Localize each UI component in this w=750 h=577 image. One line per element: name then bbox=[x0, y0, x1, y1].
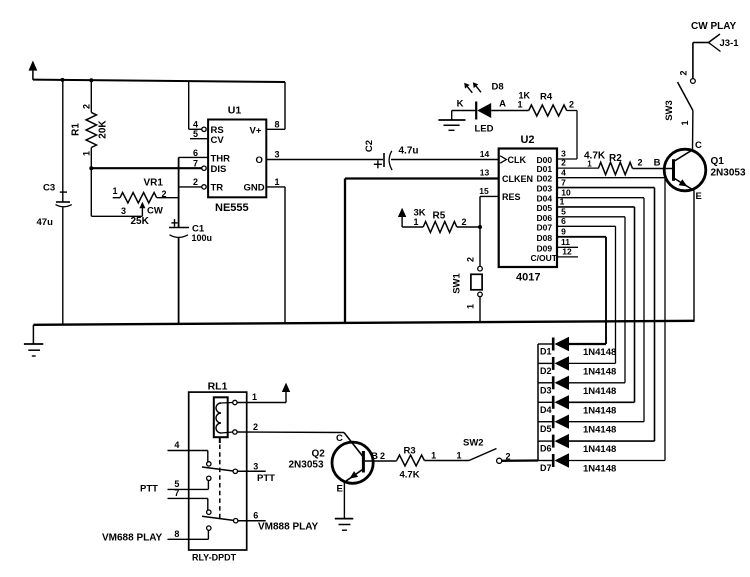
wire D05 pin1 to diode bbox=[557, 197, 635, 403]
svg-text:U1: U1 bbox=[228, 105, 242, 117]
diode D6 1N4148 bbox=[538, 434, 616, 455]
svg-text:V+: V+ bbox=[250, 126, 262, 137]
svg-text:NE555: NE555 bbox=[215, 202, 249, 214]
svg-text:2: 2 bbox=[569, 100, 574, 110]
svg-text:D8: D8 bbox=[492, 82, 504, 93]
svg-text:R3: R3 bbox=[404, 446, 416, 457]
wire SW2 to diode bus bbox=[502, 459, 538, 462]
svg-text:3: 3 bbox=[253, 461, 258, 471]
ground symbol bottom-left bbox=[24, 325, 43, 356]
wire RS pin4 to rail bbox=[189, 81, 202, 129]
wire C3 top bbox=[62, 80, 64, 202]
svg-text:1: 1 bbox=[466, 304, 476, 309]
relay pin8 bbox=[168, 529, 209, 539]
svg-text:6: 6 bbox=[253, 511, 258, 521]
svg-text:U2: U2 bbox=[520, 134, 534, 146]
pin 2 circle TR bbox=[202, 185, 206, 189]
wire D08 pin9 to diode bbox=[557, 227, 606, 345]
svg-text:1N4148: 1N4148 bbox=[583, 386, 616, 397]
svg-text:SW1: SW1 bbox=[452, 272, 463, 293]
svg-text:PTT: PTT bbox=[257, 473, 275, 484]
svg-text:4.7K: 4.7K bbox=[400, 470, 420, 481]
junction dot R1/DIS/VR1 bbox=[89, 166, 93, 170]
switch SW1 bbox=[452, 257, 483, 309]
svg-text:1N4148: 1N4148 bbox=[583, 347, 616, 358]
svg-text:C3: C3 bbox=[43, 183, 55, 194]
svg-text:Q2: Q2 bbox=[312, 449, 326, 460]
svg-text:2: 2 bbox=[679, 70, 689, 75]
svg-text:3: 3 bbox=[274, 150, 279, 160]
svg-text:12: 12 bbox=[562, 246, 572, 256]
svg-text:3K: 3K bbox=[414, 208, 426, 219]
svg-text:1: 1 bbox=[517, 100, 522, 110]
svg-text:D5: D5 bbox=[540, 424, 552, 434]
wire SW1 to ground rail bbox=[479, 297, 481, 323]
label pin4 bbox=[193, 120, 198, 130]
wire C1 bottom bbox=[178, 237, 180, 324]
wire GND pin1 bbox=[266, 187, 285, 324]
svg-text:CLKEN: CLKEN bbox=[502, 174, 533, 184]
svg-text:1: 1 bbox=[274, 177, 279, 187]
svg-text:TR: TR bbox=[211, 183, 224, 194]
svg-text:1N4148: 1N4148 bbox=[583, 444, 616, 455]
svg-text:THR: THR bbox=[211, 154, 231, 165]
relay contact D bbox=[207, 510, 211, 514]
relay pin4 bbox=[168, 440, 208, 462]
relay pin1 contact bbox=[233, 400, 237, 404]
svg-text:1: 1 bbox=[82, 151, 92, 156]
relay contact A bbox=[207, 462, 211, 466]
transistor Q1 2N3053 bbox=[664, 140, 746, 202]
svg-text:4017: 4017 bbox=[516, 272, 540, 284]
wire V+ rail bbox=[33, 80, 285, 82]
svg-text:C2: C2 bbox=[364, 140, 375, 152]
svg-text:D2: D2 bbox=[540, 366, 552, 376]
power arrow relay bbox=[282, 383, 290, 403]
svg-text:D3: D3 bbox=[540, 385, 552, 395]
wire LED A to R4 bbox=[491, 91, 530, 111]
label pin1 bbox=[274, 177, 279, 187]
wire relay pin1 bbox=[237, 392, 286, 403]
svg-text:D07: D07 bbox=[537, 222, 553, 232]
svg-text:SW2: SW2 bbox=[463, 438, 484, 449]
svg-text:100u: 100u bbox=[192, 233, 213, 243]
svg-text:8: 8 bbox=[274, 120, 279, 130]
label pin8 bbox=[274, 120, 279, 130]
svg-text:3: 3 bbox=[121, 206, 126, 216]
label CW PLAY bbox=[691, 21, 737, 32]
svg-text:2N3053: 2N3053 bbox=[289, 460, 324, 471]
svg-text:2: 2 bbox=[82, 104, 92, 109]
wire VR1 wiper loop bbox=[91, 168, 142, 216]
relay pin2 contact bbox=[233, 430, 237, 434]
svg-text:RLY-DPDT: RLY-DPDT bbox=[192, 553, 237, 563]
svg-text:D03: D03 bbox=[537, 184, 553, 194]
svg-text:6: 6 bbox=[193, 148, 198, 158]
svg-text:1: 1 bbox=[112, 186, 117, 196]
wire Q2 base bbox=[365, 451, 397, 462]
svg-text:R2: R2 bbox=[609, 153, 622, 164]
junction dot C3 branch bbox=[61, 78, 65, 82]
wire R1 to DIS node bbox=[90, 148, 92, 169]
svg-text:LED: LED bbox=[475, 124, 494, 135]
svg-text:1N4148: 1N4148 bbox=[583, 405, 616, 416]
label pin2 bbox=[193, 177, 198, 187]
svg-text:2: 2 bbox=[193, 177, 198, 187]
wire Q1 collector to SW3 bbox=[680, 111, 693, 150]
svg-text:D09: D09 bbox=[537, 243, 553, 253]
svg-text:8: 8 bbox=[174, 529, 179, 539]
wire Q1 emitter to rail bbox=[693, 191, 695, 322]
svg-text:2: 2 bbox=[461, 217, 466, 227]
svg-text:C: C bbox=[695, 140, 702, 151]
svg-text:D4: D4 bbox=[540, 405, 552, 415]
diode D7 1N4148 bbox=[538, 453, 616, 474]
ground near LED bbox=[438, 111, 465, 131]
label PTT left bbox=[140, 484, 158, 495]
svg-text:PTT: PTT bbox=[140, 484, 158, 495]
svg-text:E: E bbox=[696, 191, 702, 202]
svg-text:20K: 20K bbox=[98, 120, 109, 139]
svg-text:C: C bbox=[336, 433, 343, 444]
wire R5 to RES bbox=[457, 217, 480, 227]
connector J3-1 bbox=[709, 34, 740, 52]
svg-text:2: 2 bbox=[561, 158, 566, 168]
svg-text:1K: 1K bbox=[519, 91, 531, 101]
wire diode cathode bus bbox=[537, 344, 539, 461]
svg-text:7: 7 bbox=[174, 488, 179, 498]
wire R2 to Q1 base bbox=[633, 158, 673, 169]
wire rail to R1 bbox=[90, 80, 92, 112]
relay actuator dashed link bbox=[219, 437, 221, 518]
svg-text:4: 4 bbox=[174, 440, 179, 450]
svg-text:O: O bbox=[256, 155, 263, 166]
wire R3 to SW2 bbox=[424, 451, 469, 461]
svg-text:A: A bbox=[499, 99, 506, 110]
label pin7 bbox=[193, 159, 198, 169]
capacitor C3 bbox=[37, 183, 72, 229]
svg-text:1N4148: 1N4148 bbox=[583, 464, 616, 475]
resistor R5 bbox=[414, 208, 457, 233]
transistor Q2 2N3053 bbox=[289, 433, 374, 495]
svg-text:4: 4 bbox=[561, 167, 566, 177]
svg-text:SW3: SW3 bbox=[664, 100, 675, 121]
label VM888 PLAY bbox=[258, 522, 319, 533]
resistor R1 bbox=[71, 104, 109, 156]
switch SW2 bbox=[463, 438, 511, 464]
svg-text:47u: 47u bbox=[37, 217, 54, 228]
relay common contact 1 bbox=[233, 469, 237, 473]
svg-text:2: 2 bbox=[637, 158, 642, 168]
wire RES pin bbox=[479, 186, 498, 196]
wire C3 bottom bbox=[62, 208, 64, 325]
svg-text:E: E bbox=[337, 484, 343, 495]
wire DIS node bbox=[91, 167, 202, 169]
svg-text:K: K bbox=[457, 99, 464, 110]
wire D07 pin6 to diode bbox=[557, 216, 616, 363]
svg-text:VM688 PLAY: VM688 PLAY bbox=[102, 533, 163, 544]
wire D00 pin3 to R4 bbox=[557, 111, 577, 160]
svg-text:5: 5 bbox=[193, 129, 198, 139]
svg-text:1N4148: 1N4148 bbox=[583, 425, 616, 436]
svg-text:5: 5 bbox=[561, 207, 566, 217]
wire D04 pin10 to diode bbox=[557, 187, 644, 421]
svg-text:RL1: RL1 bbox=[208, 381, 228, 393]
pin 5 stub CV bbox=[190, 129, 208, 139]
wire relay pin6 bbox=[238, 511, 266, 521]
svg-text:11: 11 bbox=[561, 237, 570, 247]
svg-text:1: 1 bbox=[431, 451, 436, 461]
svg-text:CW PLAY: CW PLAY bbox=[691, 21, 737, 32]
resistor R4 bbox=[529, 92, 567, 117]
op-amp U1 NE555 body bbox=[208, 105, 266, 215]
svg-text:6: 6 bbox=[561, 216, 566, 226]
capacitor C2 bbox=[364, 140, 419, 170]
resistor R3 bbox=[397, 446, 425, 481]
pin 12 stub C/OUT bbox=[557, 246, 578, 257]
relay pin7 bbox=[168, 488, 208, 510]
wire relay pin3 bbox=[238, 461, 266, 471]
svg-text:GND: GND bbox=[244, 183, 265, 194]
relay coil bbox=[214, 397, 233, 437]
counter U2 4017 body bbox=[499, 134, 558, 284]
svg-text:D1: D1 bbox=[540, 347, 552, 357]
svg-text:1: 1 bbox=[680, 120, 690, 125]
wire D02 pin4 to diode bbox=[557, 167, 665, 460]
wire relay pin2 to Q2 C bbox=[237, 422, 344, 433]
svg-text:15: 15 bbox=[479, 186, 489, 196]
svg-text:1: 1 bbox=[456, 451, 461, 461]
svg-text:D01: D01 bbox=[537, 164, 553, 174]
pin 4 circle RS bbox=[202, 127, 206, 131]
svg-text:D7: D7 bbox=[540, 463, 552, 473]
diode D3 1N4148 bbox=[538, 376, 616, 397]
wire ground to LED K bbox=[452, 99, 476, 111]
relay moving contact 2 bbox=[202, 516, 234, 520]
relay contact B bbox=[207, 476, 211, 480]
wire RES vertical bbox=[479, 196, 481, 266]
svg-text:B: B bbox=[654, 158, 661, 169]
svg-text:R5: R5 bbox=[433, 211, 446, 222]
junction dot R5/RES bbox=[478, 225, 482, 229]
svg-text:14: 14 bbox=[480, 149, 490, 159]
svg-text:2N3053: 2N3053 bbox=[711, 168, 746, 179]
power arrow V+ top-left bbox=[29, 61, 38, 80]
wire ground rail bbox=[33, 321, 694, 325]
svg-text:1: 1 bbox=[560, 197, 565, 207]
svg-text:1: 1 bbox=[413, 217, 418, 227]
resistor R2 bbox=[584, 151, 633, 175]
svg-text:D02: D02 bbox=[537, 174, 553, 184]
label PTT right bbox=[257, 473, 275, 484]
svg-text:J3-1: J3-1 bbox=[720, 38, 740, 49]
svg-text:CV: CV bbox=[211, 135, 225, 146]
svg-text:2: 2 bbox=[253, 422, 258, 432]
svg-text:25K: 25K bbox=[131, 216, 150, 227]
diode D1 1N4148 bbox=[538, 337, 616, 358]
svg-text:D05: D05 bbox=[537, 203, 553, 213]
svg-text:C/OUT: C/OUT bbox=[531, 253, 558, 263]
wire CLKEN to ground bbox=[345, 168, 499, 324]
capacitor C1 bbox=[169, 219, 212, 243]
svg-text:4.7K: 4.7K bbox=[584, 151, 606, 162]
junction dot R1 branch bbox=[89, 78, 93, 82]
svg-text:B: B bbox=[371, 451, 378, 462]
relay moving contact 1 bbox=[202, 467, 233, 471]
svg-text:CW: CW bbox=[147, 206, 163, 217]
svg-text:13: 13 bbox=[480, 168, 490, 178]
wire D03 pin7 to diode bbox=[557, 177, 655, 441]
label VM688 PLAY bbox=[102, 533, 163, 544]
svg-text:R1: R1 bbox=[71, 123, 82, 136]
svg-text:2: 2 bbox=[466, 257, 476, 262]
wire VR1 pin2 bbox=[157, 197, 179, 199]
svg-text:7: 7 bbox=[561, 177, 566, 187]
relay common contact 2 bbox=[234, 519, 238, 523]
pin 7 circle DIS bbox=[202, 166, 206, 170]
svg-text:9: 9 bbox=[561, 227, 566, 237]
svg-text:1N4148: 1N4148 bbox=[583, 366, 616, 377]
switch SW3 bbox=[664, 70, 695, 120]
relay RL1 body bbox=[189, 381, 247, 563]
wire D01 pin2 to R2 bbox=[557, 158, 598, 169]
wire arrow to R5 bbox=[402, 217, 423, 227]
LED D8 bbox=[464, 82, 506, 135]
svg-text:Q1: Q1 bbox=[711, 156, 725, 167]
svg-text:1: 1 bbox=[252, 392, 257, 402]
diode D2 1N4148 bbox=[538, 356, 616, 377]
svg-text:2: 2 bbox=[380, 451, 385, 461]
pin 11 stub D09 bbox=[557, 237, 578, 248]
power arrow R5 bbox=[398, 208, 406, 227]
wire SW3 to J3-1 bbox=[693, 43, 709, 79]
svg-text:RES: RES bbox=[502, 192, 521, 202]
wire THR node vertical bbox=[178, 157, 180, 227]
diode D5 1N4148 bbox=[538, 415, 616, 436]
svg-text:CLK: CLK bbox=[508, 155, 527, 165]
svg-text:D06: D06 bbox=[537, 213, 553, 223]
svg-text:D6: D6 bbox=[540, 444, 552, 454]
wire V+ pin8 to rail bbox=[266, 82, 285, 129]
svg-text:7: 7 bbox=[193, 159, 198, 169]
label pin3 bbox=[274, 150, 279, 160]
svg-text:4: 4 bbox=[193, 120, 198, 130]
relay pin5 bbox=[168, 479, 209, 489]
wire D06 pin5 to diode bbox=[557, 207, 625, 383]
svg-text:4.7u: 4.7u bbox=[399, 146, 419, 157]
svg-text:VR1: VR1 bbox=[144, 178, 164, 189]
svg-text:D08: D08 bbox=[537, 233, 553, 243]
label R4 pin2 bbox=[569, 100, 574, 110]
potentiometer VR1 bbox=[112, 178, 166, 228]
wire O pin3 out bbox=[266, 159, 383, 161]
wire TR pin bbox=[179, 186, 202, 188]
wire THR pin bbox=[179, 156, 209, 158]
svg-text:DIS: DIS bbox=[211, 164, 227, 175]
svg-text:R4: R4 bbox=[540, 92, 553, 103]
svg-text:VM888 PLAY: VM888 PLAY bbox=[258, 522, 319, 533]
diode D4 1N4148 bbox=[538, 395, 616, 416]
relay contact E bbox=[207, 526, 211, 530]
wire C2 to CLK bbox=[391, 149, 499, 160]
ground near Q2 bbox=[335, 482, 354, 530]
label pin6 bbox=[193, 148, 198, 158]
